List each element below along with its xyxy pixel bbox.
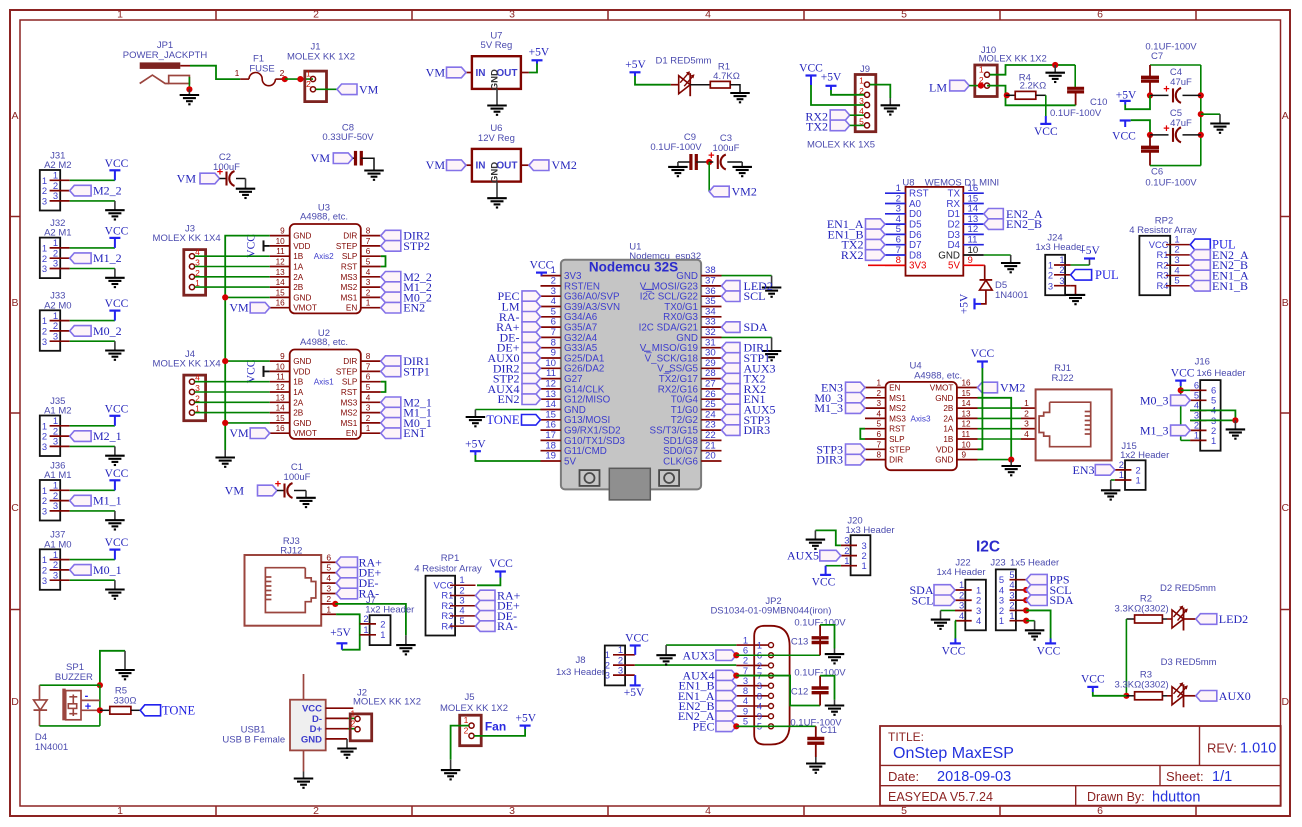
svg-text:8: 8 bbox=[366, 227, 371, 236]
svg-text:SLP: SLP bbox=[342, 252, 358, 261]
svg-text:VCC: VCC bbox=[1034, 126, 1058, 138]
svg-text:VCC: VCC bbox=[245, 234, 257, 258]
svg-text:1: 1 bbox=[117, 9, 123, 21]
svg-text:C11: C11 bbox=[820, 725, 837, 736]
svg-text:2.2KΩ: 2.2KΩ bbox=[1020, 81, 1047, 92]
svg-text:+: + bbox=[85, 701, 91, 713]
svg-text:TONE: TONE bbox=[486, 413, 519, 427]
svg-text:USB B Female: USB B Female bbox=[222, 735, 285, 746]
svg-text:1: 1 bbox=[235, 68, 240, 78]
svg-text:VCC: VCC bbox=[105, 537, 129, 549]
svg-text:2: 2 bbox=[464, 725, 469, 735]
svg-text:Axis2: Axis2 bbox=[314, 252, 334, 261]
svg-text:J8: J8 bbox=[575, 655, 585, 666]
svg-text:VCC: VCC bbox=[942, 646, 966, 658]
svg-text:5V Reg: 5V Reg bbox=[481, 40, 513, 51]
svg-text:A4988, etc.: A4988, etc. bbox=[300, 337, 348, 348]
svg-text:LM: LM bbox=[929, 81, 947, 95]
svg-text:B: B bbox=[11, 297, 18, 309]
svg-text:1B: 1B bbox=[293, 378, 304, 387]
svg-text:PEC: PEC bbox=[692, 719, 714, 733]
svg-text:6: 6 bbox=[326, 552, 331, 562]
svg-text:1: 1 bbox=[1194, 430, 1199, 441]
svg-text:C: C bbox=[11, 502, 19, 514]
svg-text:2: 2 bbox=[313, 805, 319, 817]
svg-text:7: 7 bbox=[876, 440, 881, 449]
svg-text:MOLEX KK 1X2: MOLEX KK 1X2 bbox=[353, 697, 421, 708]
svg-text:MS2: MS2 bbox=[889, 404, 906, 413]
svg-text:+5V: +5V bbox=[465, 439, 486, 451]
svg-text:RA-: RA- bbox=[497, 619, 518, 633]
svg-text:EN2_B: EN2_B bbox=[1006, 217, 1042, 231]
svg-text:EN2: EN2 bbox=[498, 392, 520, 406]
svg-text:TX2: TX2 bbox=[806, 120, 828, 134]
svg-text:GND: GND bbox=[935, 394, 953, 403]
svg-text:VM2: VM2 bbox=[552, 158, 577, 172]
svg-text:OnStep MaxESP: OnStep MaxESP bbox=[893, 745, 1014, 762]
svg-text:M0_3: M0_3 bbox=[1140, 393, 1169, 407]
svg-text:10: 10 bbox=[276, 362, 286, 371]
svg-text:VM: VM bbox=[225, 484, 245, 498]
svg-text:6: 6 bbox=[1097, 9, 1103, 21]
svg-text:STEP: STEP bbox=[336, 242, 358, 251]
svg-text:MS3: MS3 bbox=[340, 273, 357, 282]
svg-text:100uF: 100uF bbox=[284, 472, 311, 483]
svg-text:5: 5 bbox=[366, 258, 371, 267]
svg-text:0.1UF-100V: 0.1UF-100V bbox=[1145, 178, 1197, 189]
svg-text:+5V: +5V bbox=[959, 293, 971, 314]
svg-text:1x3 Header: 1x3 Header bbox=[1035, 242, 1084, 253]
svg-text:2: 2 bbox=[876, 389, 881, 398]
svg-text:MOLEX KK 1X2: MOLEX KK 1X2 bbox=[979, 54, 1047, 65]
svg-text:2A: 2A bbox=[293, 273, 304, 282]
svg-text:10: 10 bbox=[962, 440, 972, 449]
svg-text:RST: RST bbox=[341, 388, 357, 397]
svg-text:TITLE:: TITLE: bbox=[888, 730, 924, 744]
svg-text:7: 7 bbox=[366, 237, 371, 246]
svg-text:RX2: RX2 bbox=[841, 248, 864, 262]
svg-text:5V: 5V bbox=[564, 456, 576, 467]
svg-text:POWER_JACKPTH: POWER_JACKPTH bbox=[123, 50, 208, 61]
svg-text:DIR3: DIR3 bbox=[816, 453, 843, 467]
svg-text:+5V: +5V bbox=[624, 687, 645, 699]
svg-text:SP1: SP1 bbox=[66, 662, 84, 673]
svg-text:MOLEX KK 1X4: MOLEX KK 1X4 bbox=[153, 359, 221, 370]
svg-text:13: 13 bbox=[276, 393, 286, 402]
svg-text:GND: GND bbox=[293, 293, 311, 302]
svg-text:+: + bbox=[1163, 123, 1169, 135]
svg-text:VM: VM bbox=[229, 301, 249, 315]
svg-text:1: 1 bbox=[999, 615, 1004, 626]
svg-text:1A: 1A bbox=[293, 388, 304, 397]
svg-text:8: 8 bbox=[876, 451, 881, 460]
svg-text:VM: VM bbox=[177, 172, 197, 186]
svg-text:3: 3 bbox=[42, 336, 47, 347]
svg-text:3: 3 bbox=[53, 569, 58, 580]
svg-text:4: 4 bbox=[976, 615, 981, 626]
svg-text:J5: J5 bbox=[464, 692, 474, 703]
svg-text:C: C bbox=[1282, 502, 1290, 514]
svg-text:14: 14 bbox=[276, 404, 286, 413]
svg-text:Date:: Date: bbox=[888, 769, 919, 784]
svg-text:VCC: VCC bbox=[489, 558, 513, 570]
svg-text:I2C: I2C bbox=[976, 539, 1000, 556]
svg-text:MS1: MS1 bbox=[340, 419, 357, 428]
svg-text:3: 3 bbox=[1048, 280, 1053, 291]
svg-text:1: 1 bbox=[979, 64, 984, 74]
svg-text:MS3: MS3 bbox=[340, 398, 357, 407]
svg-text:2: 2 bbox=[351, 719, 356, 729]
svg-text:DIR: DIR bbox=[889, 456, 903, 465]
svg-text:47uF: 47uF bbox=[1170, 118, 1192, 129]
svg-text:VCC: VCC bbox=[105, 298, 129, 310]
svg-text:2: 2 bbox=[1024, 408, 1029, 418]
svg-text:0.1UF-100V: 0.1UF-100V bbox=[1050, 108, 1102, 119]
svg-text:MS2: MS2 bbox=[340, 283, 357, 292]
svg-text:1: 1 bbox=[1119, 469, 1124, 480]
svg-text:2: 2 bbox=[1048, 269, 1053, 280]
svg-text:DIR: DIR bbox=[343, 232, 357, 241]
svg-text:3: 3 bbox=[53, 436, 58, 447]
svg-text:4: 4 bbox=[1024, 429, 1029, 439]
svg-text:12V Reg: 12V Reg bbox=[478, 133, 515, 144]
svg-text:VDD: VDD bbox=[936, 445, 953, 454]
svg-text:19: 19 bbox=[545, 451, 556, 462]
svg-text:VCC: VCC bbox=[625, 633, 649, 645]
svg-text:M2_1: M2_1 bbox=[93, 429, 122, 443]
svg-text:VCC: VCC bbox=[1171, 368, 1195, 380]
svg-text:3: 3 bbox=[366, 278, 371, 287]
svg-text:3: 3 bbox=[1059, 275, 1064, 286]
svg-text:+: + bbox=[708, 150, 714, 162]
svg-text:15: 15 bbox=[276, 414, 286, 423]
svg-text:3: 3 bbox=[42, 263, 47, 274]
svg-text:6: 6 bbox=[1097, 805, 1103, 817]
svg-text:D: D bbox=[1282, 696, 1290, 708]
svg-text:VCC: VCC bbox=[1112, 131, 1136, 143]
svg-text:1/1: 1/1 bbox=[1212, 769, 1232, 785]
svg-text:A4988, etc.: A4988, etc. bbox=[914, 370, 962, 381]
svg-text:2B: 2B bbox=[293, 283, 304, 292]
svg-text:MOLEX KK 1X2: MOLEX KK 1X2 bbox=[440, 703, 508, 714]
svg-text:7: 7 bbox=[366, 362, 371, 371]
svg-text:D2 RED5mm: D2 RED5mm bbox=[1160, 583, 1216, 594]
svg-text:11: 11 bbox=[962, 430, 971, 439]
svg-text:MS1: MS1 bbox=[889, 394, 906, 403]
svg-text:3: 3 bbox=[53, 190, 58, 201]
svg-text:+5V: +5V bbox=[516, 712, 537, 724]
svg-text:8: 8 bbox=[896, 255, 901, 266]
svg-text:1: 1 bbox=[876, 379, 881, 388]
svg-text:A: A bbox=[1282, 110, 1289, 122]
svg-text:20: 20 bbox=[705, 451, 716, 462]
svg-text:+: + bbox=[217, 167, 223, 179]
svg-text:1x5 Header: 1x5 Header bbox=[1010, 558, 1059, 569]
svg-text:1: 1 bbox=[366, 424, 371, 433]
svg-text:VCC: VCC bbox=[530, 260, 554, 272]
svg-text:EN1: EN1 bbox=[403, 426, 425, 440]
svg-text:EN2: EN2 bbox=[403, 301, 425, 315]
svg-text:MOLEX KK 1X4: MOLEX KK 1X4 bbox=[153, 233, 221, 244]
svg-text:2: 2 bbox=[306, 79, 311, 89]
svg-text:hdutton: hdutton bbox=[1152, 790, 1200, 806]
svg-text:STP2: STP2 bbox=[403, 239, 430, 253]
svg-text:Axis1: Axis1 bbox=[314, 378, 334, 387]
svg-text:1: 1 bbox=[464, 715, 469, 725]
svg-text:3.3KΩ(3302): 3.3KΩ(3302) bbox=[1115, 680, 1169, 691]
svg-text:3: 3 bbox=[509, 9, 515, 21]
svg-text:14: 14 bbox=[962, 399, 972, 408]
svg-text:1x2 Header: 1x2 Header bbox=[1120, 450, 1169, 461]
svg-text:1x6 Header: 1x6 Header bbox=[1196, 368, 1245, 379]
svg-text:16: 16 bbox=[276, 424, 286, 433]
svg-text:4: 4 bbox=[326, 573, 331, 583]
svg-text:RST: RST bbox=[341, 263, 357, 272]
svg-text:3: 3 bbox=[53, 500, 58, 511]
svg-text:1: 1 bbox=[1024, 398, 1029, 408]
svg-text:3: 3 bbox=[42, 575, 47, 586]
svg-text:GND: GND bbox=[293, 419, 311, 428]
svg-text:13: 13 bbox=[962, 409, 972, 418]
svg-text:+5V: +5V bbox=[1079, 245, 1100, 257]
svg-text:EN: EN bbox=[346, 304, 357, 313]
svg-text:VMOT: VMOT bbox=[930, 384, 954, 393]
svg-text:MOLEX KK 1X5: MOLEX KK 1X5 bbox=[807, 140, 875, 151]
svg-text:IN: IN bbox=[476, 161, 486, 172]
svg-text:4: 4 bbox=[366, 393, 371, 402]
svg-text:VCC: VCC bbox=[245, 359, 257, 383]
svg-text:9: 9 bbox=[968, 255, 973, 266]
svg-text:STEP: STEP bbox=[336, 367, 358, 376]
svg-text:PUL: PUL bbox=[1095, 268, 1119, 282]
svg-text:1A: 1A bbox=[293, 263, 304, 272]
svg-text:1: 1 bbox=[366, 299, 371, 308]
svg-text:STEP: STEP bbox=[889, 445, 911, 454]
svg-text:12: 12 bbox=[962, 420, 972, 429]
svg-text:16: 16 bbox=[276, 299, 286, 308]
svg-text:CLK/G6: CLK/G6 bbox=[663, 456, 698, 467]
svg-text:RJ22: RJ22 bbox=[1052, 373, 1074, 384]
svg-text:5: 5 bbox=[743, 716, 748, 727]
svg-text:EN3: EN3 bbox=[1073, 463, 1095, 477]
svg-text:2B: 2B bbox=[943, 404, 954, 413]
svg-text:DIR3: DIR3 bbox=[744, 423, 771, 437]
svg-text:GND: GND bbox=[293, 232, 311, 241]
svg-text:6: 6 bbox=[366, 373, 371, 382]
svg-text:Sheet:: Sheet: bbox=[1166, 769, 1204, 784]
svg-text:VM2: VM2 bbox=[1000, 381, 1025, 395]
svg-text:4 Resistor Array: 4 Resistor Array bbox=[1129, 225, 1197, 236]
svg-text:+: + bbox=[1163, 83, 1169, 95]
svg-text:J23: J23 bbox=[990, 558, 1005, 569]
svg-text:5: 5 bbox=[901, 9, 907, 21]
svg-text:12: 12 bbox=[276, 383, 286, 392]
svg-text:3: 3 bbox=[42, 196, 47, 207]
svg-text:Drawn By:: Drawn By: bbox=[1087, 790, 1145, 804]
svg-text:M1_3: M1_3 bbox=[814, 401, 843, 415]
svg-text:16: 16 bbox=[962, 379, 972, 388]
svg-text:1x2 Header: 1x2 Header bbox=[365, 604, 414, 615]
svg-text:Fan: Fan bbox=[485, 720, 506, 734]
svg-text:VMOT: VMOT bbox=[293, 429, 317, 438]
svg-text:1x4 Header: 1x4 Header bbox=[936, 567, 985, 578]
svg-text:4: 4 bbox=[705, 9, 711, 21]
svg-text:IN: IN bbox=[476, 68, 486, 79]
svg-text:AUX3: AUX3 bbox=[683, 648, 715, 662]
svg-text:SDA: SDA bbox=[1050, 593, 1074, 607]
svg-text:SLP: SLP bbox=[889, 435, 905, 444]
svg-text:5: 5 bbox=[876, 420, 881, 429]
svg-text:D: D bbox=[11, 696, 19, 708]
svg-text:M1_2: M1_2 bbox=[93, 251, 122, 265]
svg-text:M0_1: M0_1 bbox=[93, 563, 122, 577]
svg-text:11: 11 bbox=[276, 247, 285, 256]
svg-text:2: 2 bbox=[1059, 264, 1064, 275]
svg-text:5: 5 bbox=[366, 383, 371, 392]
svg-text:C6: C6 bbox=[1151, 167, 1163, 178]
svg-text:4: 4 bbox=[876, 409, 881, 418]
svg-text:EN1_B: EN1_B bbox=[1212, 279, 1248, 293]
svg-text:+: + bbox=[275, 479, 281, 491]
svg-text:DS1034-01-09MBN044(iron): DS1034-01-09MBN044(iron) bbox=[710, 606, 831, 617]
svg-text:MS1: MS1 bbox=[340, 293, 357, 302]
svg-text:47uF: 47uF bbox=[1170, 77, 1192, 88]
svg-text:1x3 Header: 1x3 Header bbox=[556, 667, 605, 678]
svg-text:5: 5 bbox=[901, 805, 907, 817]
svg-text:3: 3 bbox=[326, 584, 331, 594]
svg-text:A4988, etc.: A4988, etc. bbox=[300, 212, 348, 223]
svg-text:A: A bbox=[11, 110, 18, 122]
svg-text:3.3KΩ(3302): 3.3KΩ(3302) bbox=[1115, 603, 1169, 614]
svg-text:RST: RST bbox=[889, 425, 905, 434]
svg-text:D1 RED5mm: D1 RED5mm bbox=[656, 56, 712, 67]
svg-text:8: 8 bbox=[366, 352, 371, 361]
svg-text:1: 1 bbox=[1009, 610, 1014, 621]
svg-text:4 Resistor Array: 4 Resistor Array bbox=[414, 564, 482, 575]
svg-text:VCC: VCC bbox=[971, 348, 995, 360]
svg-text:VM: VM bbox=[359, 82, 379, 96]
svg-text:1: 1 bbox=[859, 76, 864, 86]
svg-text:1: 1 bbox=[351, 708, 356, 718]
svg-text:GND: GND bbox=[490, 162, 501, 183]
svg-text:M1_1: M1_1 bbox=[93, 494, 122, 508]
svg-text:1.010: 1.010 bbox=[1240, 741, 1276, 757]
svg-text:Axis3: Axis3 bbox=[910, 414, 930, 423]
svg-text:GND: GND bbox=[301, 734, 322, 745]
svg-text:SCL: SCL bbox=[744, 289, 766, 303]
svg-text:GND: GND bbox=[490, 69, 501, 90]
svg-text:9: 9 bbox=[280, 352, 285, 361]
svg-text:1: 1 bbox=[1136, 474, 1141, 485]
svg-text:VDD: VDD bbox=[293, 367, 310, 376]
svg-text:C10: C10 bbox=[1090, 97, 1107, 108]
svg-text:VM: VM bbox=[229, 426, 249, 440]
svg-text:D3 RED5mm: D3 RED5mm bbox=[1161, 657, 1217, 668]
svg-text:VM: VM bbox=[426, 66, 446, 80]
svg-text:14: 14 bbox=[276, 278, 286, 287]
svg-text:STP1: STP1 bbox=[403, 364, 430, 378]
svg-text:RP1: RP1 bbox=[441, 553, 459, 564]
svg-text:0.33UF-50V: 0.33UF-50V bbox=[322, 132, 374, 143]
svg-text:GND: GND bbox=[293, 357, 311, 366]
svg-text:1: 1 bbox=[844, 555, 849, 566]
svg-text:+5V: +5V bbox=[330, 627, 351, 639]
svg-text:3: 3 bbox=[876, 399, 881, 408]
svg-text:VDD: VDD bbox=[293, 242, 310, 251]
svg-text:VCC: VCC bbox=[105, 225, 129, 237]
svg-text:VCC: VCC bbox=[1037, 646, 1061, 658]
svg-text:M2_2: M2_2 bbox=[93, 184, 122, 198]
svg-text:GND: GND bbox=[935, 456, 953, 465]
svg-text:2: 2 bbox=[380, 618, 385, 629]
svg-text:100uF: 100uF bbox=[713, 143, 740, 154]
svg-text:EASYEDA V5.7.24: EASYEDA V5.7.24 bbox=[888, 790, 993, 804]
svg-text:VCC: VCC bbox=[1081, 673, 1105, 685]
svg-text:VMOT: VMOT bbox=[293, 304, 317, 313]
svg-text:2018-09-03: 2018-09-03 bbox=[937, 769, 1011, 785]
svg-text:1B: 1B bbox=[943, 435, 954, 444]
svg-text:6: 6 bbox=[366, 247, 371, 256]
svg-text:11: 11 bbox=[276, 373, 285, 382]
svg-text:12: 12 bbox=[276, 258, 286, 267]
svg-text:3: 3 bbox=[53, 258, 58, 269]
svg-text:1B: 1B bbox=[293, 252, 304, 261]
svg-text:9: 9 bbox=[962, 451, 967, 460]
svg-text:1x3 Header: 1x3 Header bbox=[845, 525, 894, 536]
svg-text:2: 2 bbox=[313, 9, 319, 21]
svg-text:VCC: VCC bbox=[105, 468, 129, 480]
svg-text:5: 5 bbox=[1174, 276, 1179, 287]
svg-text:3: 3 bbox=[1024, 419, 1029, 429]
svg-text:1N4001: 1N4001 bbox=[35, 742, 68, 753]
svg-text:VCC: VCC bbox=[105, 403, 129, 415]
svg-text:+5V: +5V bbox=[625, 59, 646, 71]
svg-text:3V3: 3V3 bbox=[909, 261, 927, 272]
svg-text:MOLEX KK 1X2: MOLEX KK 1X2 bbox=[287, 52, 355, 63]
svg-text:TONE: TONE bbox=[162, 704, 195, 718]
svg-text:0.1UF-100V: 0.1UF-100V bbox=[650, 142, 702, 153]
svg-text:1: 1 bbox=[363, 624, 368, 635]
svg-text:REV:: REV: bbox=[1207, 741, 1237, 756]
svg-text:C7: C7 bbox=[1151, 51, 1163, 62]
svg-text:1: 1 bbox=[306, 69, 311, 79]
svg-text:EN: EN bbox=[889, 384, 900, 393]
svg-text:VM: VM bbox=[426, 158, 446, 172]
svg-text:DIR: DIR bbox=[343, 357, 357, 366]
svg-text:AUX0: AUX0 bbox=[1219, 689, 1251, 703]
svg-text:330Ω: 330Ω bbox=[114, 695, 137, 706]
svg-text:3: 3 bbox=[509, 805, 515, 817]
svg-text:MS3: MS3 bbox=[889, 414, 906, 423]
svg-text:4: 4 bbox=[366, 268, 371, 277]
svg-text:3: 3 bbox=[42, 506, 47, 517]
svg-text:2A: 2A bbox=[943, 414, 954, 423]
svg-text:C12: C12 bbox=[791, 687, 808, 698]
svg-text:3: 3 bbox=[618, 664, 623, 675]
svg-text:VCC: VCC bbox=[799, 63, 823, 75]
svg-text:5: 5 bbox=[459, 616, 464, 627]
svg-text:J16: J16 bbox=[1195, 357, 1210, 368]
svg-text:2: 2 bbox=[363, 613, 368, 624]
svg-text:13: 13 bbox=[276, 268, 286, 277]
svg-text:1: 1 bbox=[117, 805, 123, 817]
svg-text:2: 2 bbox=[366, 414, 371, 423]
svg-text:M1_3: M1_3 bbox=[1140, 423, 1169, 437]
svg-text:AUX5: AUX5 bbox=[787, 549, 819, 563]
svg-text:3: 3 bbox=[605, 670, 610, 681]
svg-text:1: 1 bbox=[326, 604, 331, 614]
svg-text:SCL: SCL bbox=[911, 593, 933, 607]
